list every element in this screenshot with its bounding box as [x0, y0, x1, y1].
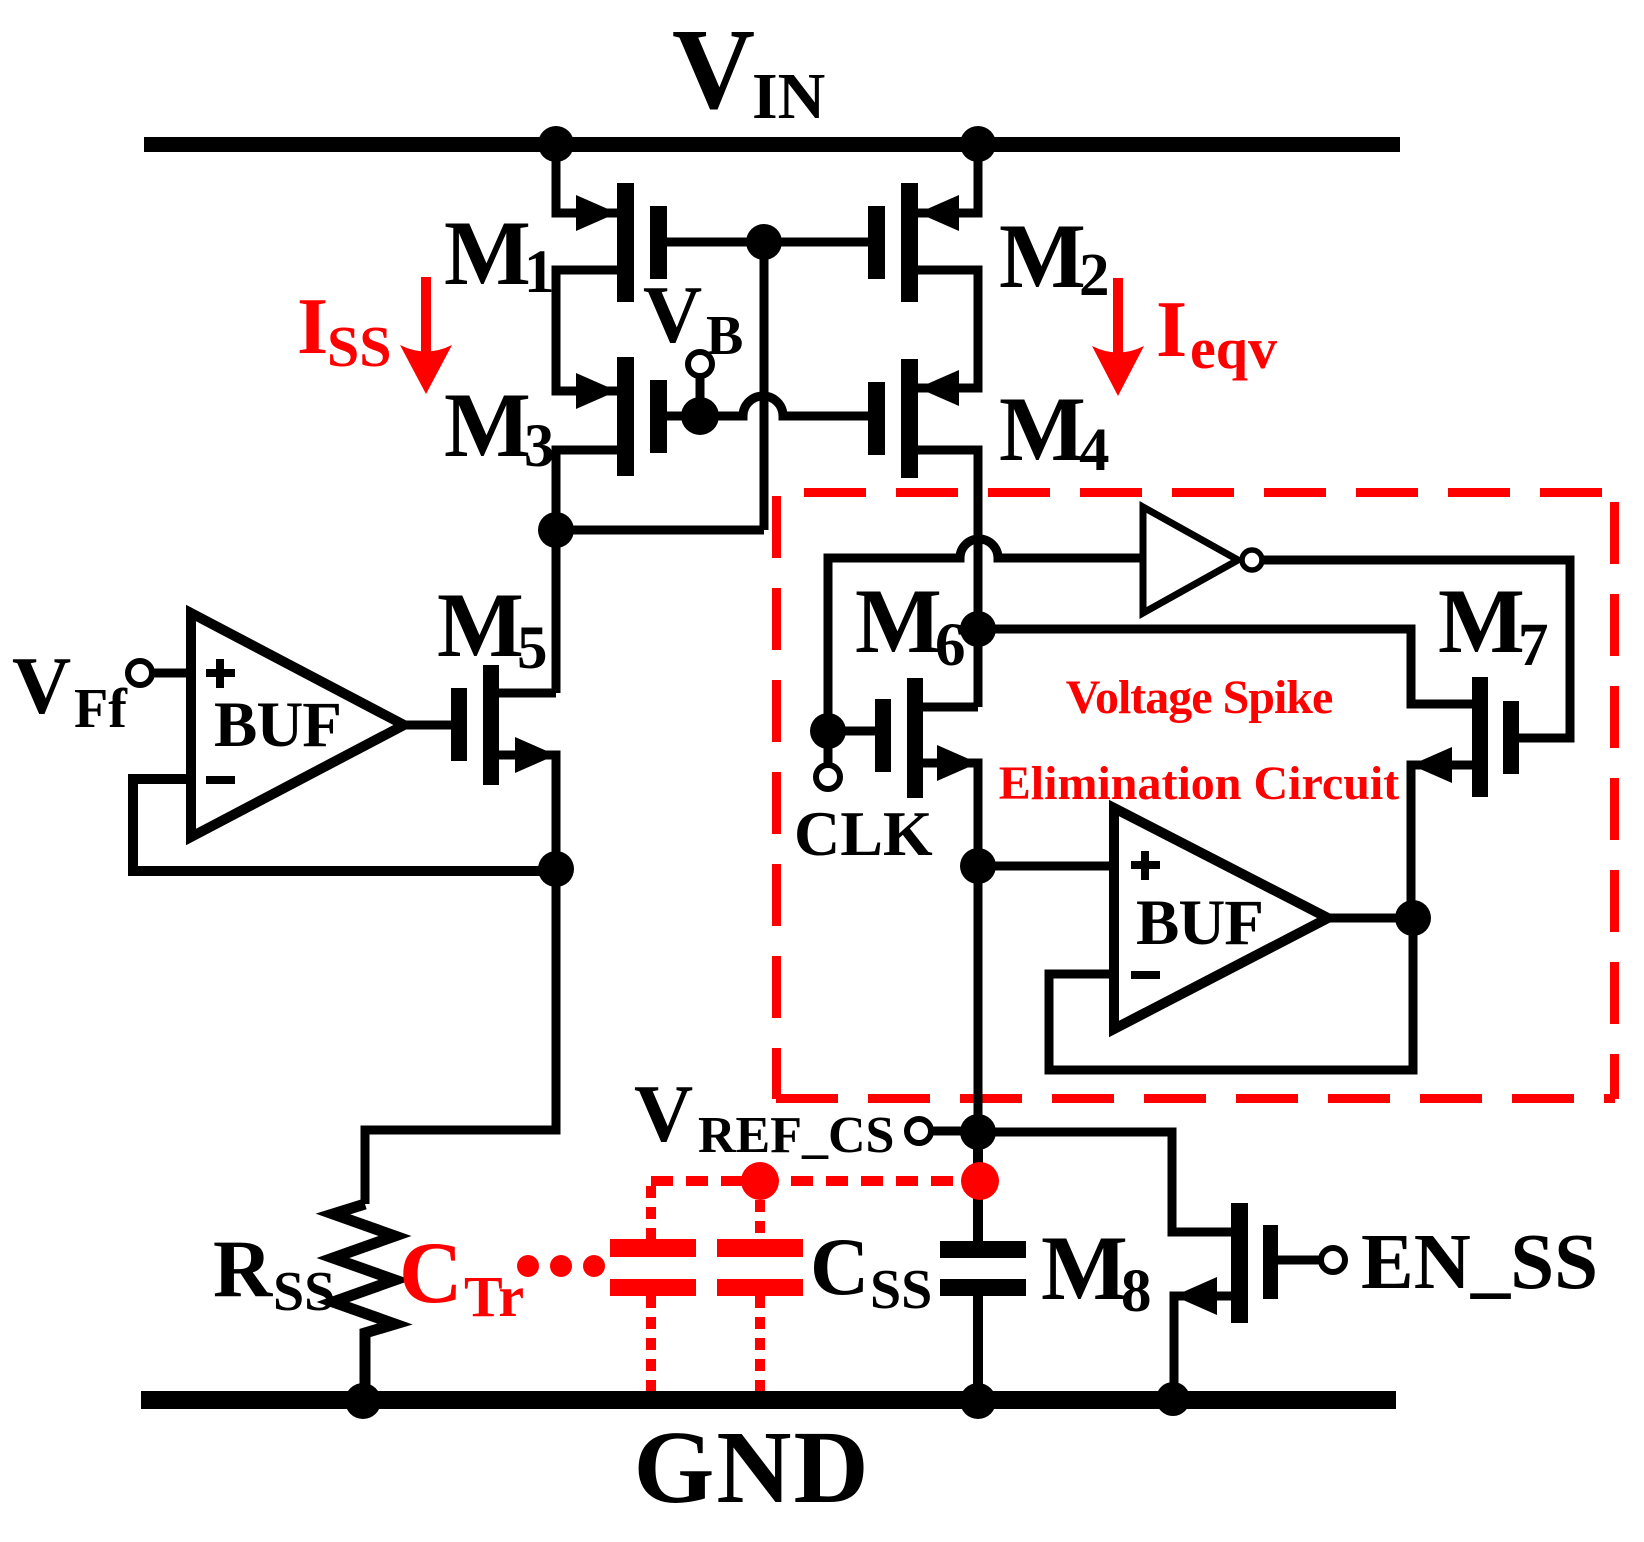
- wire CSS bottom: [973, 1296, 983, 1401]
- svg-text:GND: GND: [633, 1410, 870, 1525]
- wire M4 drain down: [918, 450, 978, 629]
- terminal EN_SS: [1321, 1248, 1345, 1272]
- terminal VREF_CS: [907, 1119, 931, 1143]
- node M8 source GND: [1156, 1382, 1190, 1416]
- wire M8 gate lead: [1278, 1256, 1319, 1265]
- op-amp BUF2: [1114, 808, 1328, 1029]
- node M4-M6-M7: [960, 611, 996, 647]
- node VIN-M2: [960, 126, 996, 162]
- svg-text:eqv: eqv: [1190, 316, 1277, 381]
- transistor M5: [451, 665, 556, 785]
- svg-text:M: M: [999, 205, 1086, 307]
- svg-text:5: 5: [517, 615, 548, 682]
- resistor RSS: [333, 1204, 395, 1401]
- node VIN-M1: [538, 126, 574, 162]
- node M6 source BUF2 plus: [960, 848, 996, 884]
- wire down to M5 drain: [552, 530, 561, 693]
- transistor M6: [875, 678, 978, 798]
- svg-text:Tr: Tr: [464, 1264, 524, 1329]
- wire M6 source down: [923, 763, 978, 866]
- svg-text:Voltage Spike: Voltage Spike: [1066, 671, 1333, 724]
- svg-text:BUF: BUF: [1136, 887, 1263, 959]
- svg-text:BUF: BUF: [214, 689, 341, 761]
- node CSS GND: [960, 1383, 996, 1419]
- transistor M3: [576, 357, 667, 476]
- node RSS GND: [345, 1383, 381, 1419]
- svg-text:REF_CS: REF_CS: [698, 1107, 894, 1164]
- red dashed net CTr: [651, 1181, 980, 1391]
- svg-text:Elimination Circuit: Elimination Circuit: [999, 757, 1399, 810]
- svg-text:SS: SS: [870, 1259, 932, 1321]
- wire M3 gate: [667, 412, 700, 421]
- svg-text:6: 6: [935, 612, 966, 679]
- red arrow Ieqv: [1092, 278, 1144, 396]
- wire M7 source down: [1411, 765, 1472, 918]
- red arrow ISS: [400, 277, 452, 394]
- node M3 drain: [538, 512, 574, 548]
- red dashed box Voltage Spike Elimination: [776, 492, 1615, 1099]
- svg-text:SS: SS: [273, 1261, 335, 1323]
- svg-text:V: V: [634, 1068, 693, 1159]
- svg-text:8: 8: [1121, 1258, 1152, 1325]
- node M5 source: [538, 851, 574, 887]
- terminal VB: [688, 352, 712, 376]
- wire M5 drain: [498, 689, 556, 698]
- transistor M2: [868, 183, 959, 302]
- wire M2 source: [918, 144, 978, 213]
- node CLK gate: [810, 713, 846, 749]
- svg-text:M: M: [1438, 570, 1525, 672]
- wire CLK gate lead: [828, 727, 875, 736]
- transistor M8: [1174, 1203, 1278, 1323]
- wire CSS top: [973, 1132, 983, 1241]
- node CTr red: [741, 1162, 779, 1200]
- wire BUF1 feedback: [133, 779, 556, 871]
- op-amp BUF1: [191, 613, 404, 837]
- wire M8 source to GND: [1174, 1296, 1231, 1399]
- wire M1 gate to mirror node: [667, 238, 868, 247]
- wire VREF node to M8 drain: [978, 1132, 1231, 1232]
- svg-text:1: 1: [524, 239, 555, 306]
- svg-text:M: M: [444, 202, 531, 304]
- svg-text:SS: SS: [327, 314, 392, 379]
- capacitor CTr2: [717, 1239, 803, 1257]
- svg-text:3: 3: [524, 413, 555, 480]
- rail GND: [141, 1391, 1396, 1409]
- wire mirror node down: [760, 242, 769, 530]
- node VREF_CS: [960, 1114, 996, 1150]
- transistor M1: [576, 183, 667, 302]
- ellipsis dots: [517, 1255, 539, 1277]
- wire BUF2 out: [1328, 914, 1413, 923]
- wire M4 drain node down: [974, 629, 983, 707]
- svg-text:7: 7: [1518, 612, 1549, 679]
- svg-text:R: R: [213, 1223, 273, 1314]
- inverter U1: [1143, 507, 1238, 613]
- wire CLK with hop: [828, 539, 1143, 731]
- wire inverter out to M7 gate: [1262, 560, 1570, 738]
- node mirror: [746, 224, 782, 260]
- svg-text:C: C: [810, 1221, 869, 1312]
- node CTr CSS red: [961, 1162, 999, 1200]
- wire M5 source down: [498, 755, 556, 869]
- svg-text:M: M: [1041, 1217, 1128, 1319]
- terminal CLK: [824, 731, 833, 765]
- wire M5 source to RSS: [365, 869, 556, 1204]
- wire M2 drain to M4 source: [918, 270, 978, 388]
- svg-text:CLK: CLK: [794, 798, 933, 869]
- wire BUF2 feedback: [1049, 918, 1413, 1070]
- svg-text:V: V: [672, 6, 755, 133]
- svg-text:M: M: [999, 378, 1086, 480]
- svg-text:V: V: [643, 269, 702, 360]
- node VB gate: [681, 397, 719, 435]
- wire M6 source to VREF node: [974, 866, 983, 1132]
- wire node to BUF2 plus: [978, 862, 1114, 871]
- transistor M4: [868, 359, 959, 478]
- svg-text:IN: IN: [752, 60, 825, 133]
- transistor M7: [1411, 677, 1519, 797]
- svg-text:M: M: [855, 570, 942, 672]
- svg-text:M: M: [437, 574, 524, 676]
- wire gate VB to M4 with hop: [700, 396, 868, 416]
- wire M6 drain: [923, 703, 978, 712]
- terminal VFf: [128, 661, 152, 685]
- wire M1 drain to M3 source: [556, 270, 617, 391]
- svg-text:EN_SS: EN_SS: [1361, 1219, 1598, 1306]
- svg-text:2: 2: [1079, 242, 1110, 309]
- capacitor CSS: [940, 1241, 1026, 1258]
- wire M3 drain: [556, 450, 617, 530]
- svg-text:V: V: [12, 640, 71, 731]
- svg-text:C: C: [399, 1225, 463, 1322]
- rail VIN: [144, 137, 1400, 152]
- wire diode connect: [556, 526, 764, 535]
- wire node to M7 drain: [978, 629, 1472, 704]
- svg-text:I: I: [1156, 286, 1187, 374]
- svg-text:I: I: [297, 283, 328, 371]
- capacitor CTr1: [610, 1239, 696, 1257]
- svg-text:M: M: [444, 374, 531, 476]
- wire M1 source: [556, 144, 617, 213]
- wire BUF1 out to M5 gate: [404, 721, 451, 730]
- svg-text:4: 4: [1079, 417, 1110, 484]
- svg-text:Ff: Ff: [74, 678, 128, 740]
- node BUF2 out M7 source: [1395, 900, 1431, 936]
